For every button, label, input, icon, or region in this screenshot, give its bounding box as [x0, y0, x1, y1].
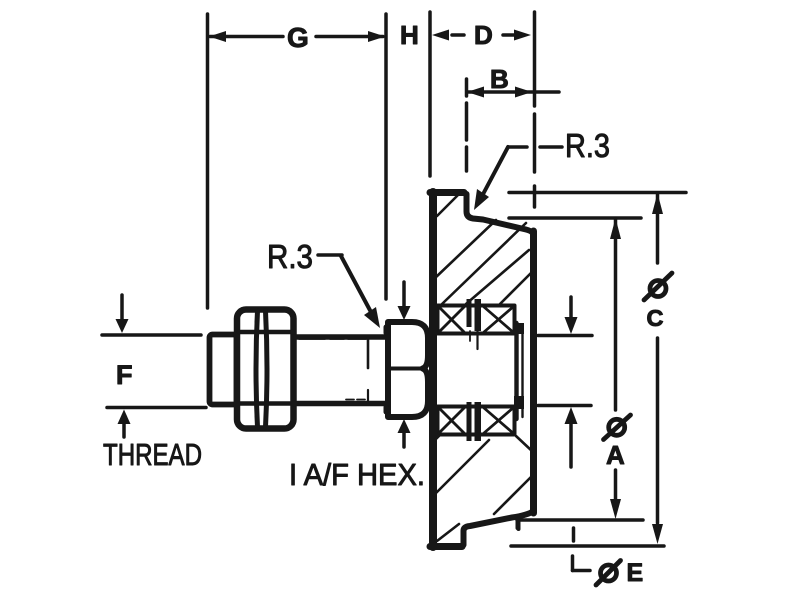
- extension line ØC top: [509, 191, 686, 195]
- svg-text:E: E: [627, 559, 644, 587]
- extension line D right / B right (dashed lower): [533, 12, 537, 207]
- leader ØE: [572, 528, 576, 541]
- bearing top inner race bars: [467, 299, 472, 327]
- dimension ØC: [656, 194, 660, 263]
- wheel flange step bottom: [464, 511, 534, 545]
- dimension ØE upper arrow: [569, 297, 573, 321]
- dimension B: [468, 90, 559, 94]
- svg-text:A: A: [606, 440, 625, 470]
- hex head: [388, 322, 428, 417]
- dimension I A/F HEX upper arrow: [402, 282, 406, 308]
- svg-text:THREAD: THREAD: [103, 437, 202, 472]
- dimension D arrows: [452, 33, 464, 37]
- leader R.3 left: [318, 253, 342, 257]
- dimension F lower arrow: [118, 410, 131, 425]
- bearing bottom inner race bars: [467, 402, 472, 441]
- extension line G left: [206, 14, 210, 308]
- label ØE: [596, 561, 621, 586]
- dimension I A/F HEX lower arrow: [398, 419, 411, 433]
- fillet at hex/shaft: [384, 327, 389, 333]
- extension line G right / H left: [384, 14, 388, 299]
- label ØA: [604, 415, 631, 440]
- F extension top: [102, 333, 201, 337]
- hex nut: [237, 310, 294, 429]
- svg-text:I A/F HEX.: I A/F HEX.: [289, 457, 425, 492]
- extension line ØE bottom: [538, 404, 591, 408]
- svg-text:R.3: R.3: [565, 127, 610, 164]
- extension line ØE top: [538, 334, 592, 338]
- wheel left face: [429, 192, 437, 547]
- svg-text:R.3: R.3: [267, 238, 313, 275]
- leader R.3 right: [540, 145, 562, 149]
- dimension G: [210, 35, 383, 39]
- end washer: [514, 323, 518, 419]
- hatch top body: [435, 193, 531, 304]
- extension line B left: [465, 79, 469, 171]
- svg-text:C: C: [647, 305, 664, 331]
- extension line ØA bottom: [517, 518, 643, 522]
- tread corner tick: [516, 519, 520, 528]
- wheel right face: [530, 231, 537, 513]
- svg-text:G: G: [287, 22, 309, 53]
- dimension ØE lower arrow: [565, 407, 578, 424]
- label ØC: [644, 273, 672, 300]
- extension line H right / D left: [428, 12, 432, 176]
- svg-text:F: F: [116, 360, 133, 390]
- extension line ØA top: [509, 216, 641, 220]
- svg-text:B: B: [490, 64, 509, 94]
- bearing top box: [438, 306, 515, 334]
- shaft: [294, 334, 388, 340]
- wheel flange step top: [467, 194, 534, 234]
- hatch bottom body: [434, 434, 532, 541]
- svg-text:D: D: [474, 20, 493, 50]
- extension line ØC bottom: [511, 544, 664, 548]
- stud thread: [210, 335, 237, 405]
- bearing bottom box: [438, 407, 515, 435]
- dimension F upper arrow: [120, 295, 124, 322]
- svg-text:H: H: [400, 20, 419, 50]
- F extension bottom: [107, 406, 206, 410]
- wheel flange top edge: [430, 189, 464, 196]
- dimension ØA: [614, 219, 618, 410]
- wheel flange bottom edge: [430, 543, 462, 550]
